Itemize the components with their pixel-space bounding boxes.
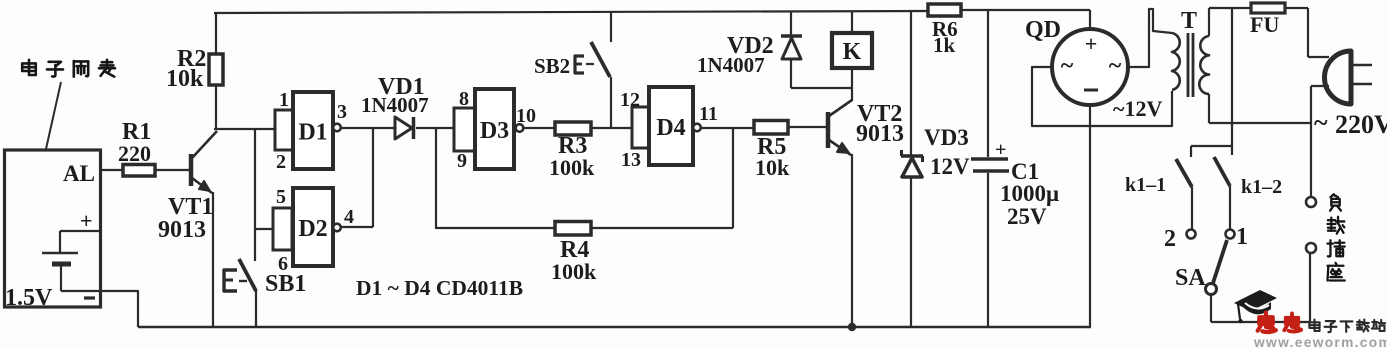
svg-text:~12V: ~12V [1113,96,1162,121]
svg-text:1.5V: 1.5V [5,285,53,311]
svg-text:k1–2: k1–2 [1241,176,1282,198]
svg-text:FU: FU [1250,12,1279,37]
svg-text:~: ~ [1109,53,1122,79]
svg-text:~: ~ [1314,108,1328,137]
svg-text:1N4007: 1N4007 [361,93,429,117]
svg-text:9013: 9013 [158,217,206,243]
svg-text:1: 1 [279,89,289,111]
svg-text:2: 2 [276,151,286,173]
svg-text:D1 ~ D4 CD4011B: D1 ~ D4 CD4011B [356,276,523,300]
svg-text:K: K [843,39,862,65]
svg-text:D1: D1 [298,120,327,146]
svg-text:25V: 25V [1007,204,1047,229]
svg-text:2: 2 [1164,226,1176,252]
svg-text:www.eeworm.com: www.eeworm.com [1253,335,1387,349]
svg-text:9: 9 [457,150,467,172]
svg-text:+: + [995,139,1006,161]
svg-text:12V: 12V [930,154,970,179]
svg-text:AL: AL [63,161,95,186]
svg-text:~: ~ [1061,53,1074,79]
svg-text:1000μ: 1000μ [1000,181,1059,206]
svg-text:D4: D4 [656,115,685,141]
svg-text:5: 5 [276,186,286,208]
svg-text:SA: SA [1175,265,1206,291]
svg-text:13: 13 [621,149,641,171]
svg-text:11: 11 [699,103,718,125]
svg-text:D3: D3 [480,118,509,144]
svg-text:T: T [1181,8,1197,34]
svg-text:3: 3 [337,101,347,123]
svg-text:220: 220 [118,141,151,166]
svg-text:D2: D2 [298,216,327,242]
svg-text:1k: 1k [933,33,956,57]
svg-text:10: 10 [516,105,536,127]
svg-text:k1–1: k1–1 [1125,174,1166,196]
svg-text:9013: 9013 [856,121,904,147]
svg-text:+: + [80,208,93,233]
svg-text:VD3: VD3 [924,125,969,150]
svg-text:10k: 10k [166,66,204,92]
svg-text:SB1: SB1 [265,271,306,297]
svg-text:4: 4 [344,206,354,228]
svg-text:1N4007: 1N4007 [697,53,765,77]
svg-text:SB2: SB2 [534,54,570,78]
svg-text:220V: 220V [1335,110,1387,139]
svg-text:1: 1 [1236,224,1248,250]
svg-text:12: 12 [620,89,640,111]
svg-text:100k: 100k [551,259,597,284]
svg-text:QD: QD [1025,17,1061,43]
svg-text:100k: 100k [549,155,595,180]
svg-text:+: + [1085,31,1098,56]
svg-text:8: 8 [459,88,469,110]
svg-text:10k: 10k [755,155,790,180]
